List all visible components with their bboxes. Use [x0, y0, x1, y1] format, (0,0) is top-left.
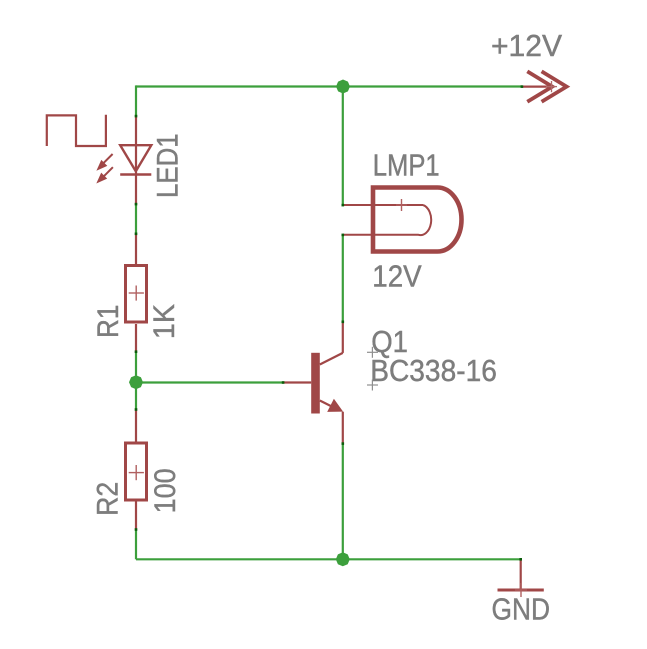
wire: R1 bottom to node A junction	[135, 351, 137, 382]
pin dot: supply pin	[521, 85, 524, 88]
label LMP1	[373, 148, 440, 183]
wire: top junction down to LMP1 pin 1	[342, 87, 344, 205]
resistor R1	[126, 234, 147, 352]
pin dot: LED1 cathode	[135, 203, 138, 206]
label GND	[492, 593, 550, 627]
svg-text:12V: 12V	[372, 259, 422, 294]
wire: Q1 emitter down to bottom junction	[342, 444, 344, 560]
svg-text:LED1: LED1	[151, 133, 184, 198]
pin dot: R1 pin 1	[135, 233, 138, 236]
lamp LMP1	[343, 188, 462, 252]
pin dot: LED1 anode	[135, 115, 138, 118]
label 100 (rotated)	[149, 468, 183, 513]
pin dot: LMP1 pin 1	[342, 204, 345, 207]
svg-text:R1: R1	[91, 305, 124, 338]
supply +12V symbol P1	[522, 71, 567, 101]
label 1K (rotated)	[147, 304, 181, 339]
pin dot: ground pin	[519, 558, 522, 561]
pin dot: LMP1 pin 2	[342, 234, 345, 237]
pin dot: R1 pin 2	[135, 350, 138, 353]
label 12V	[372, 259, 422, 294]
wire: base wire from node A to Q1 base pin	[136, 381, 283, 383]
svg-text:100: 100	[149, 468, 183, 513]
resistor R2	[126, 409, 147, 529]
label +12V	[491, 29, 563, 64]
pin dot: R2 pin 2	[135, 528, 138, 531]
label BC338-16	[370, 354, 497, 389]
pin dot: Q1 collector	[342, 321, 345, 324]
wire: bottom rail from R2 branch to GND	[136, 558, 521, 560]
label R1 (rotated)	[91, 305, 124, 338]
svg-text:1K: 1K	[147, 304, 181, 339]
square wave symbol	[47, 115, 106, 146]
ground symbol GND	[498, 559, 544, 597]
svg-text:+12V: +12V	[491, 29, 563, 64]
junction: node A (R1/R2/base)	[129, 375, 143, 389]
junction: bottom node at ground rail	[336, 552, 350, 566]
wire: LMP1 pin 2 down to Q1 collector	[342, 235, 344, 322]
wire: node A junction to R2 top	[135, 382, 137, 409]
LED LED1	[96, 116, 151, 204]
cross: Q1 origin marks	[367, 347, 378, 391]
label Q1	[371, 324, 408, 359]
pin dot: R2 pin 1	[135, 408, 138, 411]
wire: R2 bottom to bottom rail	[135, 529, 137, 559]
svg-text:BC338-16: BC338-16	[370, 354, 497, 389]
svg-text:R2: R2	[91, 482, 125, 516]
wire: top-left vertical down to LED1 anode	[135, 85, 137, 116]
pin dot: Q1 emitter	[342, 442, 345, 445]
junction: top node at +12V rail	[336, 80, 350, 94]
pin dot: Q1 base	[282, 381, 285, 384]
svg-text:GND: GND	[492, 593, 550, 627]
label R2 (rotated)	[91, 482, 125, 516]
wire: top rail from LED branch to +12V supply	[136, 85, 522, 87]
label LED1 (rotated)	[151, 133, 184, 198]
transistor Q1	[283, 322, 343, 444]
svg-text:LMP1: LMP1	[373, 148, 440, 183]
wire: LED1 cathode to R1 top	[135, 204, 137, 234]
